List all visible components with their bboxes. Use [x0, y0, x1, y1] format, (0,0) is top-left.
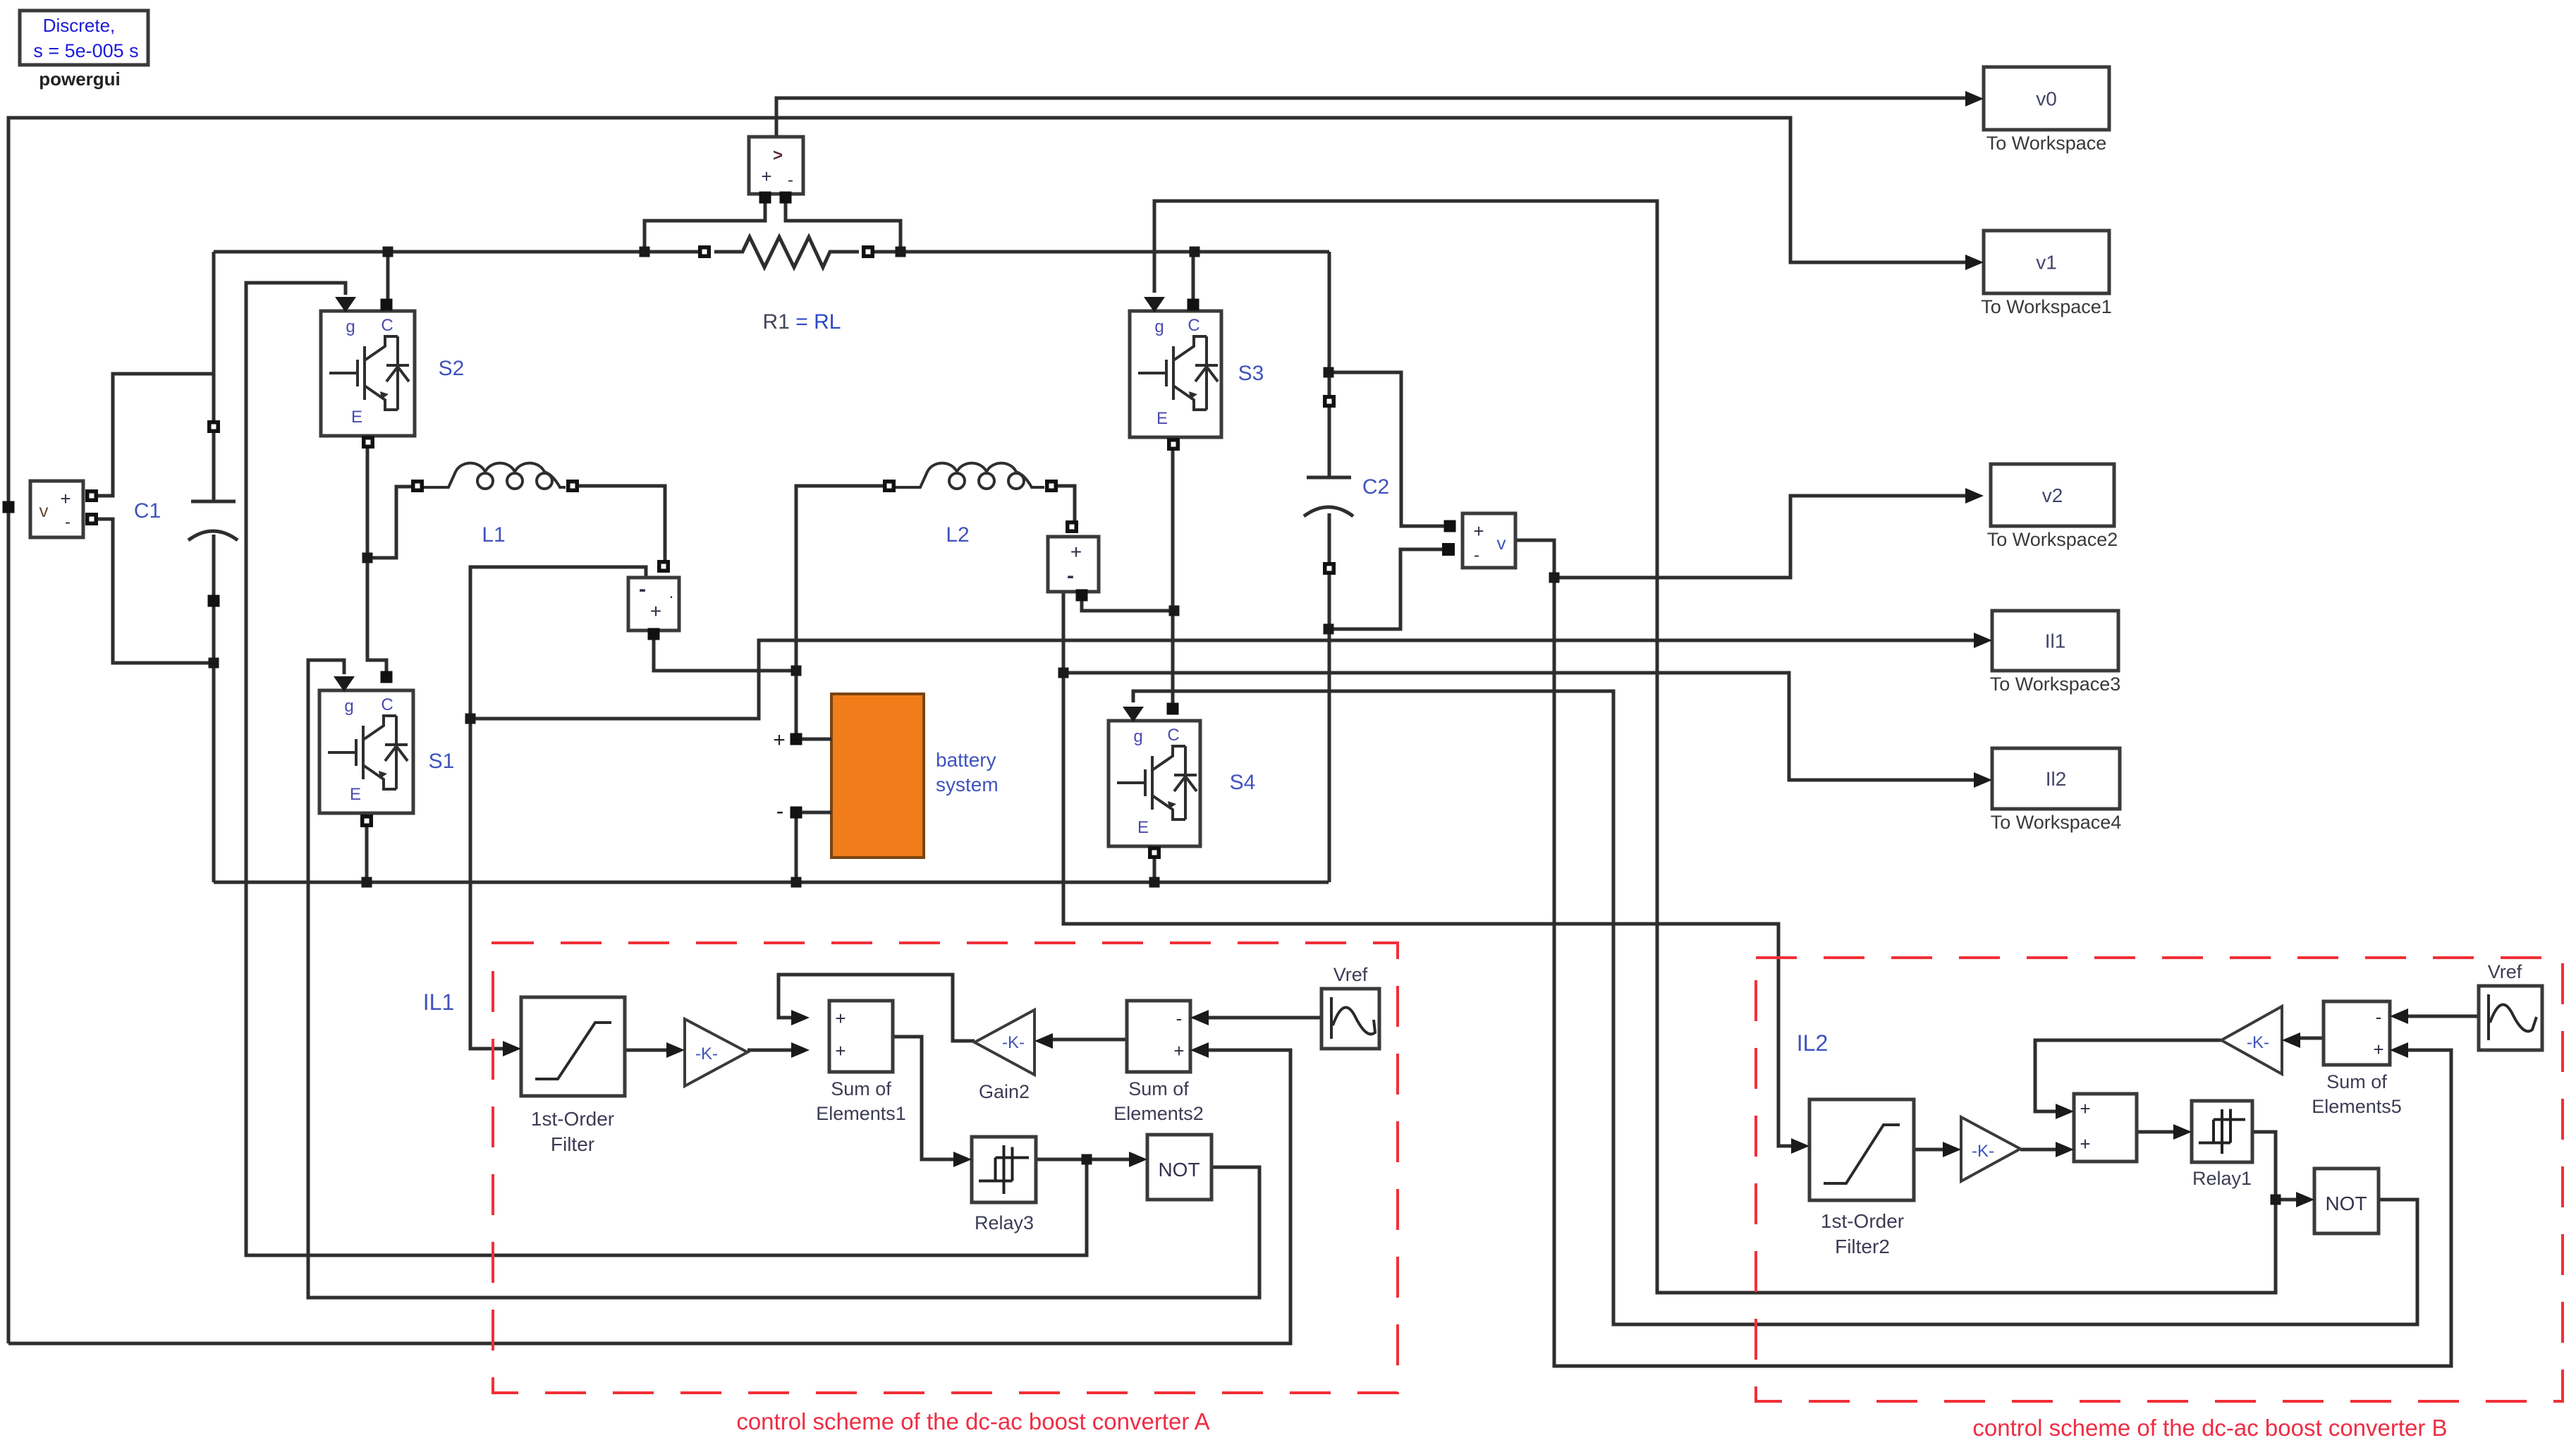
sum block (converter B) [2074, 1094, 2137, 1162]
wire current sensor 1 - lead to battery + node [654, 640, 796, 671]
svg-text:-: - [639, 578, 646, 601]
svg-text:E: E [1156, 409, 1168, 428]
wire L2 right terminal to current sensor 2 [1056, 486, 1075, 522]
svg-text:Filter: Filter [551, 1133, 594, 1155]
junction v0- tap [896, 247, 906, 257]
svg-text:g: g [1133, 727, 1142, 746]
arrow into top gain -K- B [2282, 1032, 2300, 1048]
arrow into 1st-Order Filter2 [1791, 1138, 1809, 1154]
svg-text:Vref: Vref [1333, 964, 1368, 985]
svg-text:+: + [761, 166, 771, 187]
wire S3 emitter to S4 collector (phase node B) [1171, 450, 1175, 705]
svg-text:NOT: NOT [2325, 1193, 2367, 1214]
wire C2 bottom to V2 - input [1329, 549, 1443, 629]
arrow into sum B top [2056, 1104, 2074, 1119]
svg-text:+: + [2373, 1039, 2383, 1060]
svg-text:S3: S3 [1238, 362, 1264, 385]
svg-text:-K-: -K- [1002, 1033, 1025, 1052]
junction sensor2 on phase node B [1169, 606, 1180, 616]
arrow into To Workspace v0 [1965, 91, 1984, 106]
svg-text:+: + [650, 600, 661, 622]
junction S4-E on ground rail [1149, 877, 1160, 888]
svg-text:g: g [1154, 317, 1164, 336]
wire Sum of Elements2 output to Gain2 input [1053, 1038, 1127, 1042]
arrow into Sum of Elements5 + input [2390, 1042, 2408, 1058]
wire S3 collector tap [1192, 252, 1195, 302]
svg-text:+: + [2080, 1098, 2090, 1119]
junction C1 bottom / V1- [209, 658, 219, 669]
svg-text:C1: C1 [134, 499, 161, 523]
voltage measurement V2 (right, across C2) [1463, 513, 1515, 568]
wire v0 block - lead to R1 right node [786, 202, 901, 252]
arrow into NOT B [2296, 1192, 2314, 1207]
wire current sensor 2 - lead to phase node B [1082, 600, 1173, 611]
wire v1 net: left rail from voltage measurement V1 output up, across top and down to To Workspace1 [8, 118, 1965, 1343]
svg-text:S1: S1 [429, 750, 455, 773]
wire Relay1 output to S3 gate [1154, 201, 2276, 1293]
svg-text:IL2: IL2 [1797, 1030, 1828, 1056]
wire current sensor 1 signal to IL1 filter input [470, 567, 646, 1049]
junction battery + node [791, 666, 802, 676]
svg-text:Relay1: Relay1 [2192, 1168, 2252, 1189]
wire current sensor 2 signal to IL2 filter input [1063, 592, 1791, 1146]
voltage measurement V1 (left, across C1) [30, 481, 83, 537]
svg-text:+: + [1070, 541, 1082, 563]
junction IL1 signal split [465, 714, 476, 724]
arrow into Relay1 [2173, 1124, 2192, 1140]
battery + terminal [790, 733, 802, 745]
battery - terminal [790, 807, 802, 819]
svg-text:+: + [835, 1008, 846, 1029]
svg-text:IL1: IL1 [423, 989, 454, 1015]
svg-text:+: + [1173, 1040, 1184, 1061]
svg-text:system: system [936, 774, 999, 795]
svg-text:battery: battery [936, 749, 996, 771]
arrow into gain -K- B [1943, 1142, 1961, 1157]
svg-text:s = 5e-005 s: s = 5e-005 s [33, 40, 138, 61]
svg-text:C: C [381, 316, 393, 335]
svg-text:>: > [773, 146, 783, 165]
arrow into Sum of Elements2 + input [1190, 1042, 1209, 1058]
arrow into S1 gate [334, 676, 355, 692]
svg-text:Sum of: Sum of [1128, 1078, 1189, 1099]
current measurement sensor 2 (IL2) [1048, 537, 1099, 592]
svg-text:g: g [346, 317, 355, 336]
arrow into gain -K- A [666, 1042, 685, 1058]
arrow into Gain2 [1034, 1033, 1053, 1049]
arrow into NOT A [1129, 1152, 1147, 1167]
junction S2-C on OUT+ rail [383, 247, 393, 257]
svg-text:NOT: NOT [1158, 1159, 1200, 1181]
svg-text:control scheme of the dc-ac bo: control scheme of the dc-ac boost conver… [736, 1408, 1209, 1434]
svg-text:To Workspace3: To Workspace3 [1990, 673, 2121, 695]
current measurement sensor 1 (IL1) [628, 578, 679, 630]
arrow into Sum of Elements1 bottom [791, 1042, 810, 1058]
svg-text:To Workspace2: To Workspace2 [1987, 529, 2118, 550]
svg-text:control scheme of the dc-ac bo: control scheme of the dc-ac boost conver… [1972, 1415, 2447, 1441]
svg-text:v2: v2 [2042, 484, 2063, 506]
junction V2 output split [1549, 573, 1560, 583]
wire C1 top branch [212, 252, 216, 501]
capacitor C2 [1307, 476, 1351, 480]
resistor R1 = RL [714, 237, 859, 267]
wire gain -K- output to Sum of Elements1 + input [747, 1049, 791, 1052]
wire gain -K- output to sum + input (converter B) [2020, 1148, 2056, 1152]
svg-text:Filter2: Filter2 [1835, 1236, 1890, 1257]
wire v0 block + lead to R1 left node [645, 202, 765, 252]
wire battery - to ground rail [795, 817, 798, 882]
wire sum output to Relay1 input (converter B) [2137, 1130, 2173, 1134]
svg-text:To Workspace1: To Workspace1 [1981, 296, 2112, 317]
svg-text:-K-: -K- [2247, 1033, 2269, 1052]
svg-text:+: + [835, 1040, 846, 1061]
NOT block (converter A) [1147, 1135, 1211, 1200]
wire IL2 signal branch to To Workspace4 [1063, 673, 1974, 780]
wire C2 top to V2 + input [1329, 372, 1445, 526]
wire v1 feedback to Sum of Elements2 + input [8, 1050, 1290, 1343]
svg-text:Sum of: Sum of [2326, 1071, 2387, 1092]
svg-text:L1: L1 [482, 523, 505, 547]
voltage measurement V0 (load voltage) [749, 137, 803, 194]
svg-text:C: C [381, 695, 393, 714]
svg-text:1st-Order: 1st-Order [1821, 1210, 1904, 1232]
svg-text:-K-: -K- [695, 1044, 718, 1063]
wire C2 bottom branch to ground rail [1328, 513, 1331, 882]
svg-text:E: E [1137, 818, 1149, 837]
arrow into Sum of Elements2 - input [1190, 1010, 1209, 1025]
top gain -K- block (converter B) [2221, 1006, 2282, 1074]
Sum of Elements2 block [1127, 1001, 1190, 1072]
Sum of Elements1 block [829, 1001, 893, 1072]
battery system block [831, 694, 924, 858]
svg-text:v: v [39, 500, 49, 521]
wire S2 emitter to S1 collector (phase node A) [367, 447, 386, 672]
junction phase node A [362, 553, 373, 563]
junction Relay3 output split [1082, 1154, 1092, 1165]
junction battery - on ground rail [791, 877, 802, 888]
arrow into 1st-Order Filter [503, 1041, 521, 1056]
Relay3 block [972, 1137, 1036, 1202]
1st-Order Filter block [521, 997, 625, 1096]
arrow into To Workspace3 [1974, 633, 1992, 648]
svg-text:-: - [788, 171, 793, 190]
svg-text:powergui: powergui [39, 68, 121, 90]
svg-text:Il2: Il2 [2046, 768, 2067, 790]
To Workspace block v0 [1984, 67, 2109, 130]
svg-text:+: + [2080, 1133, 2090, 1154]
wire left voltage measurement V1 - lead to C1 bottom node [97, 519, 214, 663]
Sum of Elements5 block [2324, 1001, 2390, 1065]
svg-text:C: C [1167, 726, 1179, 745]
svg-text:+: + [773, 728, 786, 752]
wire 1st-Order Filter output to gain -K- input [625, 1049, 666, 1052]
wire V2 output feedback to Sum of Elements5 + input [1554, 578, 2451, 1366]
arrow into To Workspace1 [1965, 255, 1984, 270]
junction S1-E on ground rail [362, 877, 372, 888]
control scheme A dashed boundary [493, 943, 1398, 1393]
Vref1 source block (converter B) [2479, 986, 2542, 1050]
To Workspace3 block Il1 [1992, 611, 2118, 671]
Gain2 block [975, 1010, 1034, 1075]
wire L1 right terminal to current sensor 1 [579, 486, 665, 562]
arrow into To Workspace4 [1974, 772, 1992, 788]
wire Relay3 output to S2 gate [246, 283, 1087, 1255]
svg-text:To Workspace4: To Workspace4 [1991, 812, 2122, 833]
To Workspace1 block v1 [1984, 231, 2109, 293]
arrow into Relay3 [953, 1152, 972, 1167]
1st-Order Filter2 block [1809, 1099, 1914, 1200]
svg-text:Elements5: Elements5 [2312, 1096, 2402, 1117]
powergui block [20, 11, 148, 65]
wire Vref to Sum of Elements2 - input [1209, 1016, 1321, 1020]
inductor L2 [896, 463, 1044, 487]
svg-text:-: - [1176, 1008, 1183, 1029]
svg-text:E: E [350, 785, 361, 804]
transistor S1 (IGBT) [319, 690, 413, 813]
wire NOT1 output to S4 gate [1133, 691, 2417, 1324]
Relay1 block [2192, 1101, 2252, 1162]
wire battery + vertical riser to L2 branch [796, 486, 885, 735]
capacitor C1 [191, 500, 236, 504]
wire C2 top branch [1328, 252, 1331, 477]
svg-text:L2: L2 [946, 523, 969, 547]
svg-text:-K-: -K- [1972, 1142, 1994, 1161]
wire node OUT+ rail right part [868, 250, 1329, 254]
junction C2 top / V2+ [1324, 367, 1334, 378]
wire 1st-Order Filter2 output to gain -K- input [1914, 1148, 1943, 1152]
svg-text:v0: v0 [2036, 88, 2057, 110]
svg-text:v: v [1497, 532, 1506, 554]
wire IL1 signal branch to To Workspace3 [470, 640, 1974, 719]
svg-text:C: C [1188, 316, 1200, 335]
svg-text:1st-Order: 1st-Order [531, 1108, 614, 1130]
wire Vref1 to Sum of Elements5 - input [2408, 1015, 2479, 1018]
wire node OUT+ rail (top bridge rail) left part [214, 250, 704, 254]
transistor S3 (IGBT) [1130, 311, 1221, 437]
svg-text:S4: S4 [1230, 771, 1256, 794]
junction IL2 signal split [1058, 668, 1069, 678]
arrow into Sum of Elements1 top [791, 1010, 810, 1025]
inductor L1 [424, 463, 566, 487]
gain -K- block (converter B) [1961, 1117, 2020, 1181]
svg-text:C2: C2 [1362, 475, 1389, 499]
wire phase node A to L1 left terminal [367, 487, 413, 558]
svg-text:Il1: Il1 [2045, 630, 2066, 652]
arrow into Sum of Elements5 - input [2390, 1008, 2408, 1024]
svg-text:-: - [1067, 564, 1074, 587]
svg-text:Sum of: Sum of [831, 1078, 891, 1099]
gain -K- block (converter A) [685, 1019, 747, 1086]
svg-text:To Workspace: To Workspace [1986, 133, 2107, 154]
svg-text:Relay3: Relay3 [975, 1212, 1034, 1233]
svg-text:+: + [1473, 520, 1484, 542]
wire left voltage measurement V1 + lead to C1 top node [97, 374, 214, 496]
svg-text:Elements1: Elements1 [816, 1103, 906, 1124]
junction C2 bottom / V2- [1324, 624, 1334, 635]
svg-text:S2: S2 [439, 357, 465, 380]
wire ground rail (battery - bus) [214, 881, 1329, 884]
junction v0+ tap [640, 247, 650, 257]
arrow into S3 gate [1144, 297, 1165, 312]
wire V2 output to To Workspace2 [1515, 496, 1965, 578]
svg-text:E: E [351, 408, 362, 427]
control scheme B dashed boundary [1756, 958, 2563, 1401]
wire v0 measurement output to To Workspace v0 [776, 98, 1965, 137]
wire S4 emitter to ground rail [1153, 858, 1156, 882]
Vref source block (converter A) [1321, 989, 1379, 1049]
wire C1 bottom branch to ground rail [212, 535, 216, 882]
svg-text:+: + [60, 488, 71, 509]
To Workspace4 block Il2 [1992, 748, 2120, 809]
NOT block (converter B) [2314, 1169, 2379, 1233]
junction Relay1 output split [2271, 1195, 2281, 1205]
wire Sum of Elements1 output to Relay3 input [893, 1037, 953, 1159]
wire S2 collector tap [386, 252, 390, 302]
svg-text:-: - [2376, 1006, 2382, 1028]
svg-text:g: g [344, 697, 353, 716]
wire Relay1 output branch to NOT1 input [2276, 1198, 2296, 1202]
arrow into To Workspace2 [1965, 488, 1984, 504]
svg-text:-: - [65, 513, 71, 532]
transistor S4 (IGBT) [1109, 721, 1200, 846]
svg-text:Discrete,: Discrete, [43, 15, 116, 36]
arrow into S4 gate [1123, 707, 1144, 722]
wire S1 emitter to ground rail [365, 827, 369, 882]
svg-text:v1: v1 [2036, 252, 2057, 274]
arrow into sum B bottom [2056, 1142, 2074, 1157]
To Workspace2 block v2 [1991, 464, 2114, 526]
wire Sum of Elements5 output to top gain -K- input [2300, 1037, 2324, 1040]
arrow into S2 gate [335, 297, 356, 312]
wire Gain2 output feedback to Sum of Elements1 + input [779, 975, 975, 1041]
transistor S2 (IGBT) [321, 311, 415, 436]
svg-text:R1 = RL: R1 = RL [763, 310, 841, 334]
svg-text:Vref: Vref [2488, 961, 2522, 982]
svg-text:.: . [669, 583, 674, 602]
wire NOT output to S1 gate [308, 660, 1259, 1298]
wire Relay3 output to NOT input [1036, 1158, 1129, 1162]
svg-text:-: - [776, 798, 784, 824]
svg-text:Gain2: Gain2 [979, 1081, 1030, 1102]
svg-text:Elements2: Elements2 [1113, 1103, 1204, 1124]
wire top gain -K- output feedback to sum + input (converter B) [2035, 1040, 2221, 1111]
junction S3-C on OUT+ rail [1190, 247, 1200, 257]
svg-text:-: - [1474, 546, 1479, 565]
